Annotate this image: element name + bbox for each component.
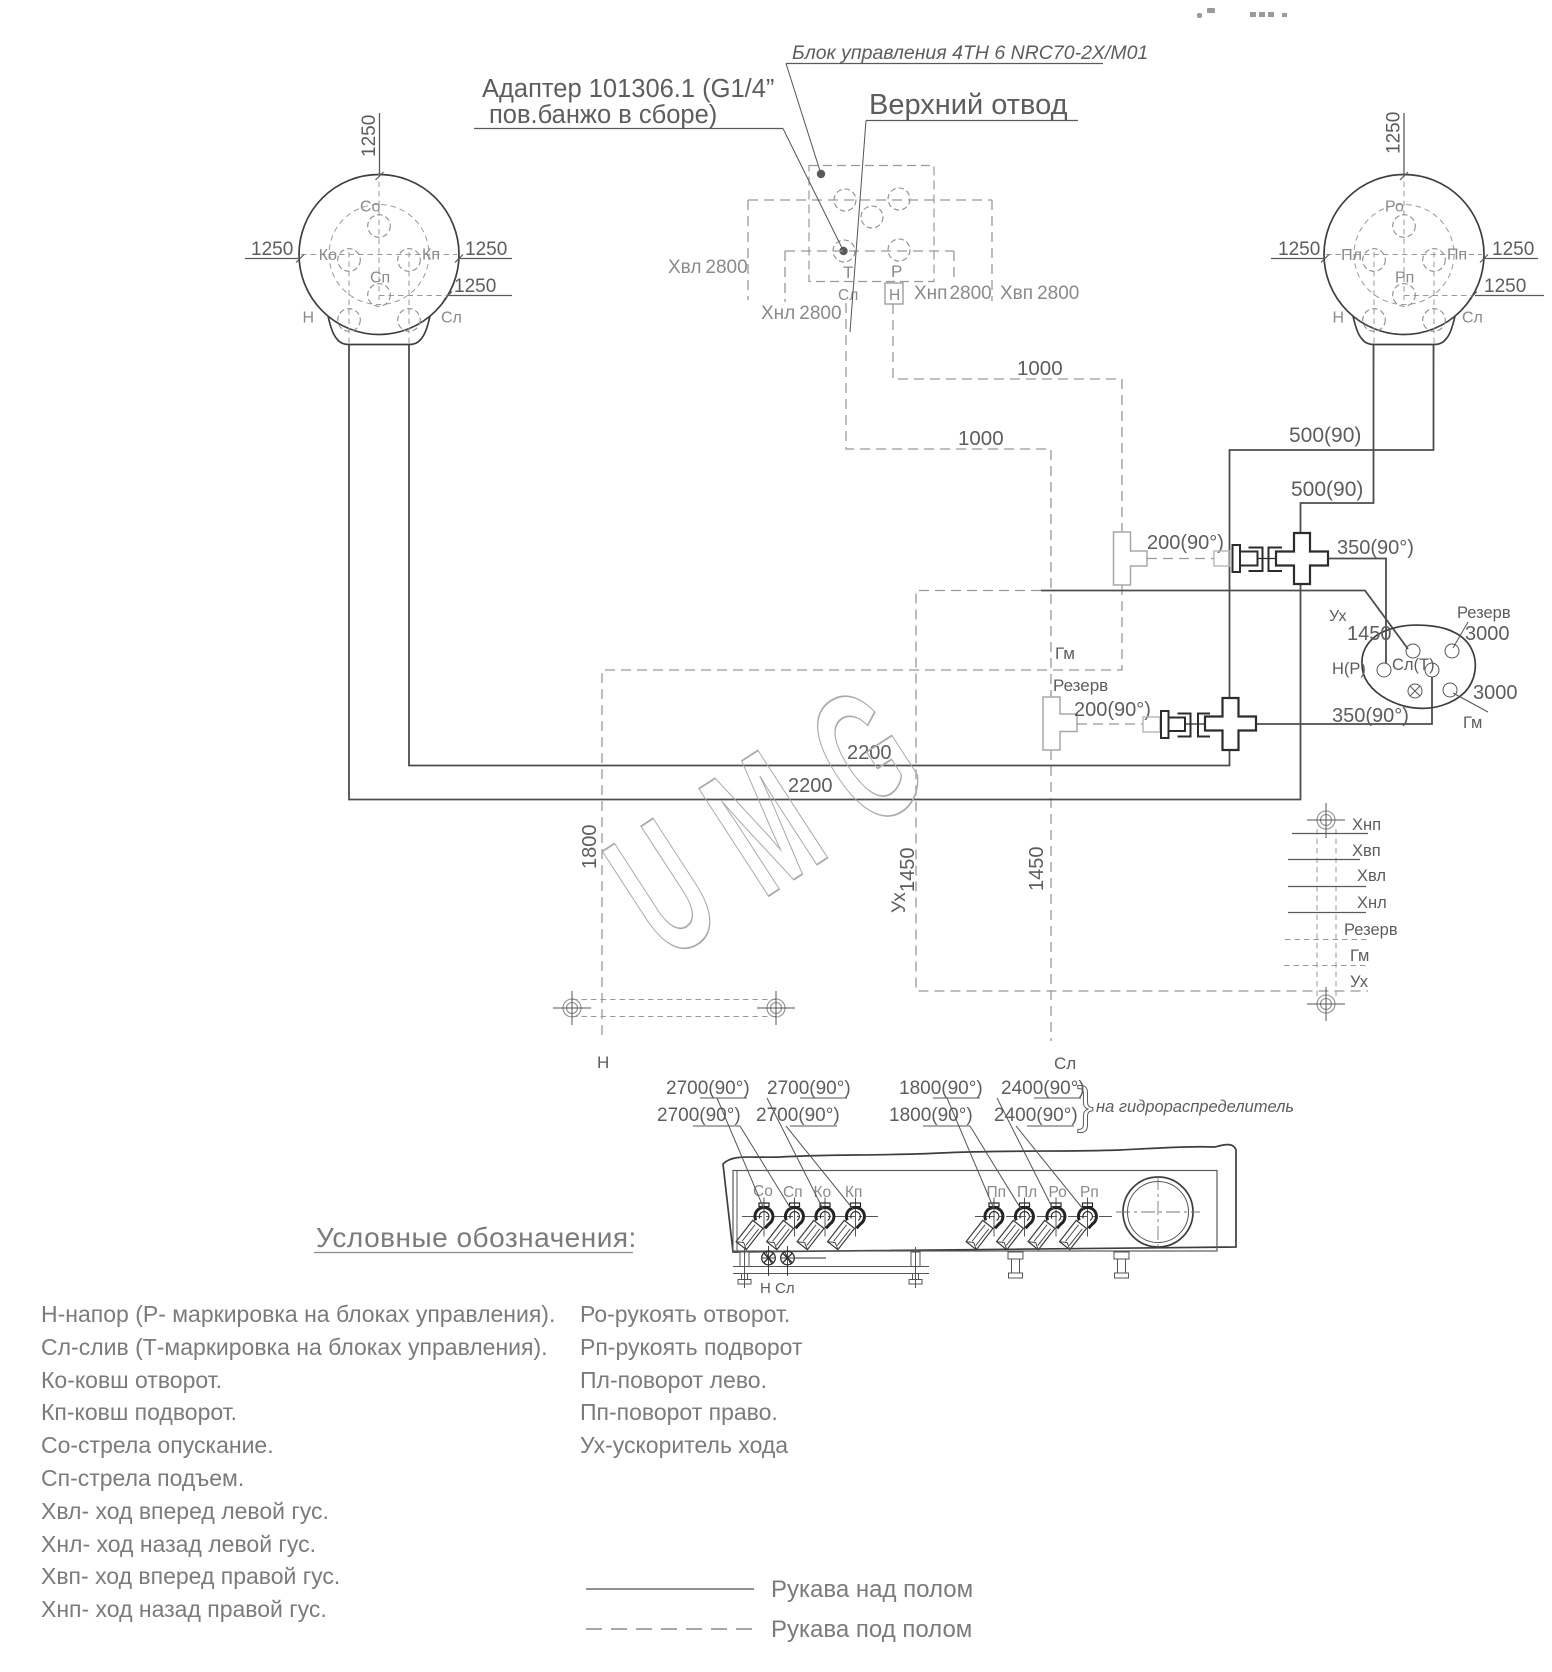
svg-text:Рп: Рп <box>1080 1184 1099 1201</box>
svg-text:Ух: Ух <box>1329 608 1346 625</box>
hose stub Гм <box>1284 947 1369 966</box>
svg-text:1800(90°): 1800(90°) <box>889 1105 973 1126</box>
svg-text:Со: Со <box>360 199 381 216</box>
fitting Ро <box>1028 1198 1065 1250</box>
distributor inner body <box>733 1171 1217 1252</box>
hose stub Хнп <box>1292 816 1381 834</box>
svg-text:Ро: Ро <box>1049 1184 1067 1201</box>
dimension 1250 top left block <box>359 113 380 176</box>
svg-text:3000: 3000 <box>1473 682 1518 704</box>
svg-text:Рп-рукоять подворот: Рп-рукоять подворот <box>580 1334 803 1360</box>
tee fitting lower (on Сл run) <box>1043 697 1077 750</box>
svg-text:Н-напор (Р- маркировка на блок: Н-напор (Р- маркировка на блоках управле… <box>41 1301 555 1327</box>
pilot block ports <box>833 188 910 262</box>
hose stub Резерв <box>1285 921 1398 940</box>
svg-text:Рукава над полом: Рукава над полом <box>771 1576 973 1603</box>
inner pitch dashed circle <box>329 205 429 305</box>
pilot valve block 4TH6 NRC70 dashed body <box>809 166 934 282</box>
svg-text:Верхний отвод: Верхний отвод <box>869 89 1068 121</box>
svg-text:1250: 1250 <box>454 276 496 297</box>
svg-text:Гм: Гм <box>1350 947 1369 965</box>
hose Н(Р) dashed run from pilot block <box>602 304 1122 1041</box>
bolt symbol left <box>553 991 591 1025</box>
fitting centerline left <box>742 1216 878 1218</box>
svg-text:Ух: Ух <box>889 892 910 913</box>
svg-text:Хнп- ход назад правой гус.: Хнп- ход назад правой гус. <box>41 1596 327 1622</box>
label H boxed under P <box>885 283 903 304</box>
svg-text:1250: 1250 <box>251 239 293 260</box>
svg-text:Ух-ускоритель хода: Ух-ускоритель хода <box>580 1432 788 1458</box>
banjo assembly upper <box>1214 545 1282 572</box>
stud fitting mid <box>1008 1252 1023 1278</box>
svg-text:Хнп: Хнп <box>1352 816 1381 834</box>
wire: left block Сл leg down and across (2200) to lower cross riser <box>409 345 1230 766</box>
inner pitch dashed circle <box>1354 205 1454 305</box>
svg-text:на гидрораспределитель: на гидрораспределитель <box>1096 1098 1294 1116</box>
dashed link tee to banjo upper <box>1147 558 1214 560</box>
svg-text:Рукава под полом: Рукава под полом <box>771 1616 972 1643</box>
svg-text:Пп-поворот право.: Пп-поворот право. <box>580 1399 778 1425</box>
svg-text:Т: Т <box>843 263 853 282</box>
control block right (arm/slew joystick) <box>1324 172 1484 362</box>
svg-text:200(90°): 200(90°) <box>1147 532 1224 554</box>
svg-text:Кп-ковш подворот.: Кп-ковш подворот. <box>41 1399 237 1425</box>
sight glass circle <box>1116 1176 1200 1250</box>
svg-text:Кп: Кп <box>845 1184 862 1201</box>
control block body circle <box>299 175 459 335</box>
leader Резерв <box>1453 622 1468 648</box>
dimension ticks <box>296 172 1488 300</box>
svg-text:Пл: Пл <box>1017 1184 1037 1201</box>
svg-text:Ко: Ко <box>319 247 337 264</box>
svg-text:Кп: Кп <box>422 247 440 264</box>
svg-text:Пп: Пп <box>1447 247 1467 264</box>
svg-text:Ух: Ух <box>1350 973 1369 991</box>
svg-text:2700(90°): 2700(90°) <box>756 1105 840 1126</box>
mounting bolt left <box>738 1247 751 1288</box>
svg-text:Сп: Сп <box>370 270 390 287</box>
ports <box>1363 215 1446 332</box>
svg-text:Рп: Рп <box>1395 270 1414 287</box>
ports <box>338 215 421 332</box>
svg-text:Хвп- ход вперед правой гус.: Хвп- ход вперед правой гус. <box>41 1563 340 1589</box>
control block body circle <box>1324 175 1484 335</box>
travel hose stubs dashed <box>748 200 992 302</box>
fitting Рп <box>1060 1198 1097 1250</box>
svg-text:Сл: Сл <box>1054 1054 1076 1073</box>
banjo assembly lower <box>1143 711 1210 738</box>
svg-text:1800(90°): 1800(90°) <box>899 1078 983 1099</box>
label shelves <box>693 1098 1081 1126</box>
fitting Ко <box>797 1198 834 1250</box>
svg-text:1250: 1250 <box>1484 276 1526 297</box>
svg-text:Хвл: Хвл <box>1357 867 1386 885</box>
svg-text:}: } <box>1077 1077 1094 1133</box>
dimension 1250 lower right of right block <box>1475 276 1544 297</box>
svg-text:Н: Н <box>1332 310 1344 327</box>
hose stub Хвп <box>1288 842 1381 860</box>
fitting Сп <box>767 1198 804 1250</box>
fitting centerline right <box>975 1216 1112 1218</box>
dimension 1250 right of left block <box>459 239 512 260</box>
control block skirt <box>1353 316 1455 345</box>
banjo adapter dot 1 <box>817 170 825 178</box>
svg-text:Н(Р): Н(Р) <box>1332 660 1366 678</box>
svg-text:3000: 3000 <box>1465 623 1510 645</box>
H and Сл pass-through eyes <box>762 1246 826 1276</box>
svg-text:500(90): 500(90) <box>1289 424 1361 447</box>
svg-text:1450: 1450 <box>1026 847 1048 892</box>
svg-text:Сп-стрела подъем.: Сп-стрела подъем. <box>41 1465 244 1491</box>
svg-text:1250: 1250 <box>1492 239 1534 260</box>
hose Ух dashed run <box>916 591 1368 992</box>
svg-text:Хнл- ход назад левой гус.: Хнл- ход назад левой гус. <box>41 1531 316 1557</box>
pedal port Н(Р) <box>1377 663 1391 677</box>
svg-text:Хвп2800: Хвп2800 <box>1000 283 1079 304</box>
legend left column <box>41 1301 555 1622</box>
fitting Со <box>736 1198 773 1250</box>
svg-text:Р: Р <box>891 262 902 281</box>
wire: Ух solid run to pedal Ух port <box>1041 591 1408 650</box>
svg-text:1250: 1250 <box>359 115 380 157</box>
legend right column <box>580 1301 803 1458</box>
control block left (bucket/boom joystick) <box>299 172 462 362</box>
wire: upper cross right arm to pedal H(P) port <box>1328 559 1386 664</box>
svg-text:500(90): 500(90) <box>1291 478 1363 501</box>
stud fitting right <box>1114 1252 1129 1278</box>
callout: Блок управления 4ТН 6 NRC70-2Х/М01 <box>786 42 1148 174</box>
pedal drain port crossed <box>1408 684 1422 698</box>
svg-text:2400(90°): 2400(90°) <box>1001 1078 1085 1099</box>
fitting Кп <box>828 1198 865 1250</box>
leader Гм <box>1453 693 1488 712</box>
svg-text:Н: Н <box>302 310 314 327</box>
svg-text:350(90°): 350(90°) <box>1332 705 1409 727</box>
legend line: hoses above floor <box>586 1576 973 1603</box>
svg-text:Сп: Сп <box>783 1184 803 1201</box>
leaders to fittings <box>717 1098 1083 1209</box>
svg-text:Пл-поворот лево.: Пл-поворот лево. <box>580 1367 767 1393</box>
svg-text:2400(90°): 2400(90°) <box>994 1105 1078 1126</box>
hose stub Хнл <box>1288 894 1387 913</box>
bolt symbol bottom of hose list <box>1307 987 1345 1021</box>
callout: Адаптер 101306.1 <box>474 75 844 251</box>
svg-text:Гм: Гм <box>1055 644 1075 663</box>
wire: right block Сл leg down, 500(90) to lower cross <box>1230 345 1434 698</box>
dimension 1250 left of right block <box>1271 239 1325 260</box>
svg-text:Сл: Сл <box>441 310 462 327</box>
cross fitting lower <box>1205 698 1256 750</box>
fitting Пп <box>966 1198 1003 1250</box>
svg-text:350(90°): 350(90°) <box>1337 537 1414 559</box>
svg-text:Сл: Сл <box>775 1280 795 1297</box>
legend line: hoses under floor <box>586 1616 972 1643</box>
centerlines <box>1326 172 1482 362</box>
svg-text:Н: Н <box>597 1053 609 1072</box>
fitting Пл <box>997 1198 1034 1250</box>
svg-text:Гм: Гм <box>1463 714 1482 732</box>
floor slot with bolts (Н / Сл pass-through) <box>572 1000 776 1017</box>
svg-text:Со-стрела опускание.: Со-стрела опускание. <box>41 1432 274 1458</box>
scan noise dots <box>1197 8 1287 18</box>
svg-text:Пл: Пл <box>1341 247 1362 264</box>
svg-text:Условные обозначения:: Условные обозначения: <box>316 1222 637 1253</box>
svg-text:Хнл: Хнл <box>1357 894 1387 912</box>
wire: left block H leg down and across (2200) to upper cross riser <box>349 345 1301 800</box>
control block skirt <box>328 316 430 345</box>
svg-text:Резерв: Резерв <box>1344 921 1398 939</box>
bolt symbol top of hose list <box>1307 803 1345 838</box>
hydraulic distributor outline <box>723 1145 1236 1252</box>
hose stub Ух <box>1350 973 1369 991</box>
dimension 1250 top right block <box>1384 112 1405 176</box>
svg-text:2700(90°): 2700(90°) <box>666 1078 750 1099</box>
svg-text:Ро-рукоять отворот.: Ро-рукоять отворот. <box>580 1301 790 1327</box>
svg-text:Блок управления 4ТН 6 NRC70-2Х: Блок управления 4ТН 6 NRC70-2Х/М01 <box>792 42 1148 64</box>
svg-text:Резерв: Резерв <box>1457 604 1511 622</box>
distributor mounting bar <box>733 1267 929 1274</box>
svg-text:200(90°): 200(90°) <box>1074 699 1151 721</box>
svg-text:Ко: Ко <box>814 1184 832 1201</box>
svg-text:Резерв: Резерв <box>1053 676 1108 695</box>
svg-text:Сл: Сл <box>838 287 858 304</box>
svg-text:Н: Н <box>760 1280 771 1297</box>
wire: lower cross right arm to pedal Сл(Т) port <box>1256 677 1432 724</box>
svg-text:Адаптер 101306.1 (G1/4”: Адаптер 101306.1 (G1/4” <box>482 75 774 103</box>
svg-text:1000: 1000 <box>1017 357 1063 380</box>
hose stub Хвл <box>1288 867 1386 887</box>
svg-text:1250: 1250 <box>1384 112 1405 154</box>
dimension 1250 lower right of left block <box>448 276 512 297</box>
svg-text:Сл: Сл <box>1462 310 1483 327</box>
svg-text:Хвл2800: Хвл2800 <box>668 257 748 278</box>
svg-text:Сл(Т): Сл(Т) <box>1392 656 1435 674</box>
hose list rails dashed <box>1317 829 1336 999</box>
svg-text:Ро: Ро <box>1385 199 1404 216</box>
svg-text:1250: 1250 <box>1278 239 1320 260</box>
distributor port labels <box>753 1183 1099 1201</box>
cross fitting upper <box>1276 533 1328 584</box>
svg-text:1250: 1250 <box>465 239 507 260</box>
svg-text:Со: Со <box>753 1183 773 1200</box>
dashed link tee to banjo lower <box>1077 723 1143 725</box>
dimension 1250 right of right block <box>1484 239 1538 260</box>
svg-text:Ко-ковш отворот.: Ко-ковш отворот. <box>41 1367 222 1393</box>
svg-text:Хнп2800: Хнп2800 <box>914 283 992 304</box>
dimension 1250 left of left block <box>245 239 300 260</box>
svg-text:Хнл2800: Хнл2800 <box>761 303 842 324</box>
hose Сл(Т) dashed run from pilot block <box>846 303 1051 1041</box>
pedal port Ух <box>1406 644 1420 658</box>
travel pedal unit outline <box>1362 625 1475 708</box>
svg-text:Хвл- ход вперед левой гус.: Хвл- ход вперед левой гус. <box>41 1498 329 1524</box>
centerlines <box>301 172 457 362</box>
tee fitting upper (on H run) <box>1114 532 1148 585</box>
callout: Верхний отвод <box>850 89 1078 332</box>
banjo adapter dot 2 (T port) <box>839 247 847 255</box>
svg-text:пов.банжо в сборе): пов.банжо в сборе) <box>489 101 717 129</box>
pedal port Гм <box>1443 683 1457 697</box>
bolt symbol right <box>757 991 795 1025</box>
svg-text:2700(90°): 2700(90°) <box>657 1105 741 1126</box>
svg-text:Сл-слив (Т-маркировка на блока: Сл-слив (Т-маркировка на блоках управлен… <box>41 1334 548 1360</box>
svg-text:2700(90°): 2700(90°) <box>767 1078 851 1099</box>
legend title <box>314 1222 637 1253</box>
svg-text:1000: 1000 <box>958 427 1004 450</box>
pedal port Резерв <box>1445 644 1459 658</box>
svg-text:Н: Н <box>889 287 900 304</box>
pedal port Сл(Т) <box>1425 663 1439 677</box>
svg-text:Хвп: Хвп <box>1352 842 1381 860</box>
mounting bolt right <box>909 1247 922 1288</box>
svg-text:1450: 1450 <box>1347 623 1392 645</box>
wire: right block H leg down, 500(90) to upper cross <box>1301 345 1374 533</box>
